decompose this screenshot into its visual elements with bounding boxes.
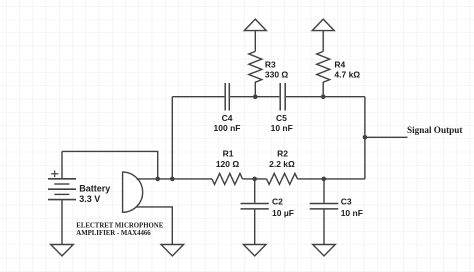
- battery B1: [48, 151, 76, 244]
- junction: left drop to mic output row: [170, 177, 175, 182]
- svg-text:100 nF: 100 nF: [214, 123, 241, 133]
- ground (C2): [243, 245, 266, 256]
- wire: top rail right segment: [286, 96, 365, 98]
- svg-text:C4: C4: [222, 113, 233, 123]
- ground (battery): [51, 245, 74, 256]
- wire: between R1 and R2: [243, 178, 267, 180]
- svg-text:330 Ω: 330 Ω: [265, 70, 289, 80]
- wire: R2 to right drop: [298, 178, 365, 180]
- resistor R1: [212, 173, 243, 184]
- svg-text:3.3 V: 3.3 V: [79, 194, 100, 204]
- svg-text:C5: C5: [276, 113, 287, 123]
- wire: battery top run to microphone node: [62, 151, 158, 179]
- junction: R1/R2/C2 node: [252, 177, 257, 182]
- junction: battery run to mic output row: [155, 177, 160, 182]
- svg-text:Signal Output: Signal Output: [407, 125, 463, 135]
- wire: microphone output row to R1: [137, 178, 213, 180]
- svg-text:R2: R2: [277, 148, 288, 158]
- ground (C3): [313, 245, 336, 256]
- svg-text:10 µF: 10 µF: [272, 208, 294, 218]
- svg-text:10 nF: 10 nF: [341, 208, 363, 218]
- power symbol (above R3): [244, 19, 266, 51]
- resistor R2: [267, 173, 298, 184]
- junction: R4 to top rail: [321, 94, 326, 99]
- junction: R3 to top rail: [253, 94, 258, 99]
- svg-text:ELECTRET MICROPHONE: ELECTRET MICROPHONE: [76, 223, 163, 230]
- junction: R2/C3 node: [322, 177, 327, 182]
- svg-text:R3: R3: [265, 59, 276, 69]
- svg-text:C2: C2: [272, 197, 283, 207]
- capacitor C4: [225, 83, 229, 111]
- wire: top rail left segment: [172, 96, 224, 98]
- svg-text:R1: R1: [223, 148, 234, 158]
- svg-text:AMPLIFIER - MAX4466: AMPLIFIER - MAX4466: [76, 230, 151, 237]
- ground (microphone): [161, 245, 184, 256]
- capacitor C3: [310, 179, 339, 245]
- wire: right vertical drop from top rail: [364, 97, 366, 179]
- power symbol (above R4): [312, 19, 334, 51]
- svg-text:10 nF: 10 nF: [271, 123, 293, 133]
- microphone MK1: [123, 172, 143, 212]
- resistor R3: [249, 51, 262, 96]
- wire: microphone bottom lead to ground: [136, 207, 172, 245]
- svg-text:Battery: Battery: [79, 184, 110, 194]
- wire: top rail middle segment: [230, 96, 279, 98]
- capacitor C5: [280, 83, 285, 111]
- wire: left vertical drop from top rail: [171, 97, 173, 179]
- junction: signal output tap: [363, 135, 368, 140]
- svg-text:R4: R4: [334, 59, 345, 69]
- resistor R4: [317, 51, 330, 96]
- svg-text:C3: C3: [341, 197, 352, 207]
- svg-text:4.7 kΩ: 4.7 kΩ: [334, 70, 360, 80]
- wire: signal output tap: [365, 136, 408, 138]
- svg-text:2.2 kΩ: 2.2 kΩ: [269, 159, 295, 169]
- capacitor C2: [241, 179, 269, 245]
- svg-text:120 Ω: 120 Ω: [216, 159, 240, 169]
